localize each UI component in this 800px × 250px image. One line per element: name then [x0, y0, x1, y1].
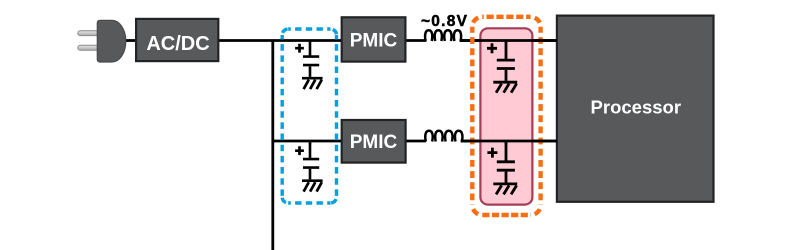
svg-text:~0.8V: ~0.8V [421, 13, 468, 30]
svg-text:AC/DC: AC/DC [146, 33, 209, 55]
svg-text:Processor: Processor [591, 97, 682, 118]
svg-text:PMIC: PMIC [350, 132, 398, 153]
svg-text:PMIC: PMIC [350, 30, 398, 51]
